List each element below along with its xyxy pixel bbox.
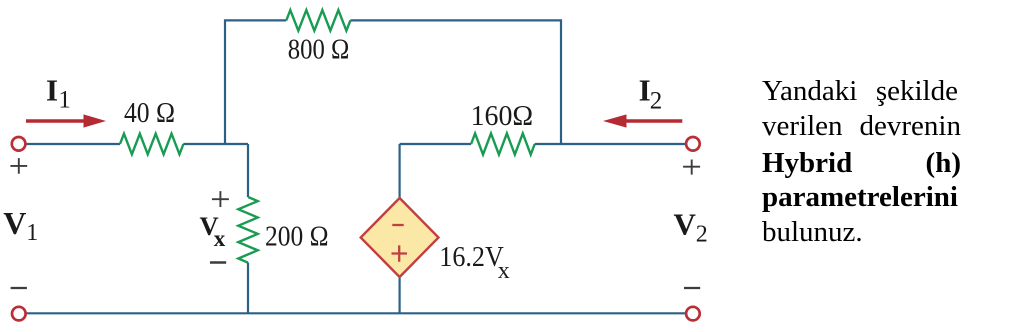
svg-text:200 Ω: 200 Ω [265,222,329,253]
wire node A down to 200ohm [247,144,249,197]
polarity plus Vx [212,191,229,207]
svg-text:1: 1 [58,87,71,114]
polarity minus V1 [11,287,27,289]
terminal port 2 bottom [686,307,700,321]
wire 160ohm to right terminal [535,143,686,145]
dependent source 16.2Vx diamond [361,198,439,277]
wire 200ohm to bottom rail [247,263,249,314]
polarity minus V2 [684,287,700,289]
arrow I2 [603,114,682,127]
svg-text:800 Ω: 800 Ω [288,35,350,66]
svg-text:2: 2 [650,87,663,114]
wire dependent source bottom to rail [399,277,401,313]
wire top-right from 800ohm down to right node [350,20,561,144]
wire bottom rail [25,312,687,314]
svg-text:I: I [46,73,58,108]
problem statement text block [762,75,958,108]
svg-text:40 Ω: 40 Ω [124,98,175,129]
terminal port 2 top [686,137,700,151]
resistor R 800ohm [286,10,350,31]
wire node B corner down to dependent source [399,144,401,198]
svg-text:2: 2 [696,222,708,248]
svg-text:1: 1 [26,220,38,246]
terminal port 1 bottom [12,307,26,321]
wire left terminal to 40ohm [26,143,120,145]
polarity plus V1 [10,158,27,174]
svg-text:V: V [674,206,697,241]
wire 40ohm to node A [183,143,248,145]
polarity minus Vx [210,261,226,263]
svg-text:x: x [214,226,226,251]
terminal port 1 top [12,137,26,151]
resistor R 160ohm [471,133,535,154]
svg-text:V: V [3,205,26,241]
resistor R 40ohm [120,134,183,155]
wire node B to 160ohm [400,143,472,145]
svg-text:160Ω: 160Ω [471,101,533,132]
svg-text:16.2V: 16.2V [439,242,504,273]
resistor R 200ohm vertical [238,197,257,263]
wire top-left vertical and top lead to 800ohm [225,20,286,144]
svg-text:x: x [498,258,510,284]
arrow I1 [26,114,106,127]
polarity plus V2 [683,160,700,175]
